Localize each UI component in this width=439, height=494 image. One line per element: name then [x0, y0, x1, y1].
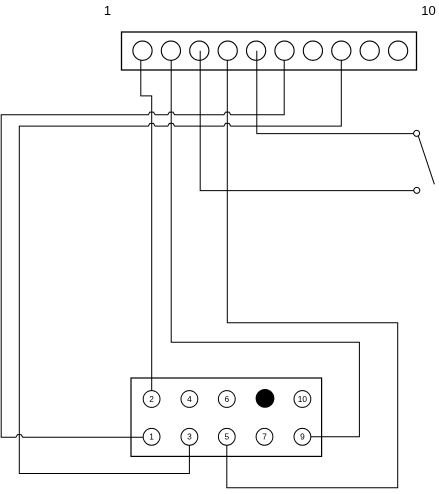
J1 pin 6 [275, 41, 294, 60]
wire J1.6 to J2.1 (with hops) [1, 60, 284, 437]
J2 pin 6 [218, 391, 235, 408]
J2 pin 1 [143, 428, 160, 445]
wire J1.8 to J2.3 (with hops) [19, 60, 341, 473]
wire J1.5 to S1 top [257, 51, 414, 134]
svg-text:5: 5 [224, 432, 229, 442]
J1 pin 7 [303, 41, 322, 60]
connector J2 block body [131, 378, 322, 456]
J1 pin 1 [133, 41, 152, 60]
svg-text:7: 7 [262, 432, 267, 442]
J2 pin 2 [143, 391, 160, 408]
switch S1 lever [418, 136, 434, 184]
J1 pin 2 [161, 41, 180, 60]
svg-text:4: 4 [187, 394, 192, 404]
J1 pin 4 [218, 41, 237, 60]
J2 pin 7 [256, 428, 273, 445]
J2 pin 10 [294, 391, 311, 408]
wire J1.1 to J2.2 [141, 60, 152, 390]
svg-text:2: 2 [149, 394, 154, 404]
wire J1.3 to S1 bottom [200, 51, 414, 191]
svg-text:10: 10 [298, 394, 308, 404]
J1 pin 5 [247, 41, 266, 60]
wire J1.2 to J2.9 [171, 60, 359, 436]
switch S1 top contact [414, 130, 420, 136]
J2 pin 4 [181, 391, 198, 408]
J1 pin 9 [360, 41, 379, 60]
svg-text:1: 1 [149, 432, 154, 442]
connector J1 header body [122, 32, 417, 70]
svg-text:6: 6 [224, 394, 229, 404]
switch S1 bottom contact [414, 187, 420, 193]
J1 pin 10 [389, 41, 408, 60]
J2 pin 9 [294, 428, 311, 445]
J2 pin 8 (filled key) [256, 389, 275, 408]
J1 pin 8 [332, 41, 351, 60]
svg-text:1: 1 [104, 3, 111, 18]
J2 pin 5 [218, 428, 235, 445]
J2 pin 3 [181, 428, 198, 445]
svg-text:3: 3 [187, 432, 192, 442]
wire J1.4 to J2.5 [227, 60, 398, 487]
svg-text:9: 9 [300, 432, 305, 442]
svg-text:10: 10 [421, 3, 435, 18]
J1 pin 3 [190, 41, 209, 60]
